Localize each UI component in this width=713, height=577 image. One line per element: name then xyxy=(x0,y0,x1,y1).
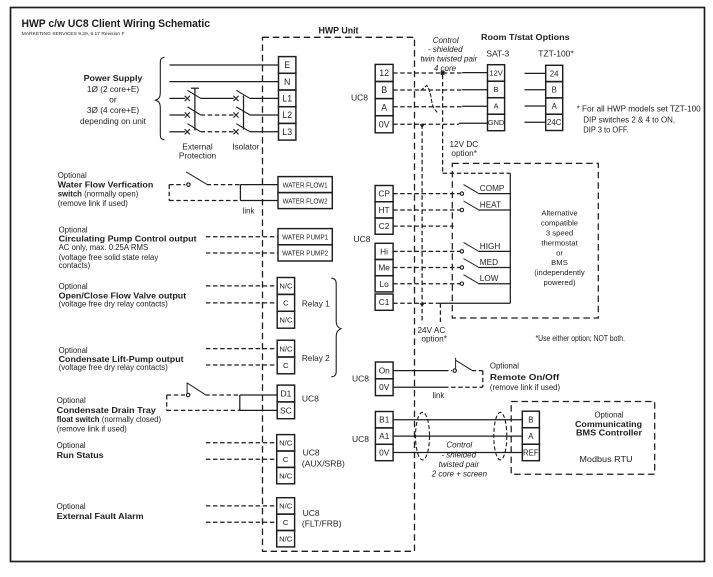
label UC8 FLT/FRB xyxy=(302,508,342,528)
HWP Unit dashed enclosure box xyxy=(263,37,415,551)
svg-text:Alternative: Alternative xyxy=(541,209,577,218)
svg-text:or: or xyxy=(556,248,563,257)
wire 0V remote xyxy=(393,386,483,388)
svg-text:N/C: N/C xyxy=(279,315,293,324)
wire water flow bottom xyxy=(169,200,240,202)
svg-text:(remove link if used): (remove link if used) xyxy=(57,425,128,434)
wire run status C xyxy=(206,458,277,460)
svg-text:Me: Me xyxy=(378,263,390,273)
wire drain tray top with float switch xyxy=(167,383,240,397)
label Power Supply block xyxy=(80,73,147,126)
wire 12 to SAT-3 12V xyxy=(393,72,487,74)
svg-text:float switch (normally closed): float switch (normally closed) xyxy=(57,415,162,424)
terminal block D1 SC xyxy=(277,385,294,419)
svg-text:C: C xyxy=(283,455,289,464)
svg-text:N: N xyxy=(284,77,290,87)
wire CP to COMP switch xyxy=(393,184,510,195)
svg-text:Protection: Protection xyxy=(179,151,217,161)
wire N xyxy=(170,81,279,83)
svg-text:4 core: 4 core xyxy=(434,64,457,73)
svg-text:CP: CP xyxy=(378,189,390,199)
isolator tie bar xyxy=(243,96,245,130)
svg-text:WATER FLOW2: WATER FLOW2 xyxy=(283,196,328,205)
svg-text:Optional: Optional xyxy=(594,410,623,419)
wire fault NC xyxy=(206,505,277,507)
svg-text:1Ø (2 core+E): 1Ø (2 core+E) xyxy=(87,84,140,94)
terminal block relay1 N/C C N/C xyxy=(277,278,294,329)
svg-text:*Use either option; NOT both.: *Use either option; NOT both. xyxy=(536,334,626,343)
svg-text:twin twisted pair: twin twisted pair xyxy=(420,54,477,63)
wire bus to C1 xyxy=(440,302,510,304)
svg-text:B: B xyxy=(381,85,387,95)
label Optional Communicating BMS Controller xyxy=(575,410,643,464)
svg-text:B: B xyxy=(494,85,499,94)
wire 12V DC option feed across xyxy=(443,172,511,174)
svg-text:0V: 0V xyxy=(379,119,390,129)
svg-text:N/C: N/C xyxy=(279,502,293,511)
svg-text:Optional: Optional xyxy=(59,225,88,234)
svg-text:24C: 24C xyxy=(547,118,562,127)
svg-text:link: link xyxy=(243,206,255,215)
wire A to SAT-3 A xyxy=(393,105,487,107)
wire Me to MED switch xyxy=(393,258,510,269)
terminal block SAT-3 12V B A GND xyxy=(488,65,505,131)
screen ellipse left xyxy=(416,412,430,460)
svg-text:DIP 3 to OFF.: DIP 3 to OFF. xyxy=(583,126,628,135)
svg-text:UC8: UC8 xyxy=(303,447,320,457)
svg-text:HWP Unit: HWP Unit xyxy=(319,26,359,36)
svg-text:SAT-3: SAT-3 xyxy=(486,48,509,58)
svg-text:On: On xyxy=(379,365,390,375)
wire 24V AC option drop short xyxy=(439,303,441,322)
svg-text:twisted pair: twisted pair xyxy=(439,460,480,469)
wire L2 with breaker and isolator xyxy=(170,107,279,118)
svg-text:0V: 0V xyxy=(379,447,390,457)
external protection tie bar xyxy=(191,88,199,130)
svg-text:Control: Control xyxy=(446,441,472,450)
wire run status NC xyxy=(206,442,277,444)
svg-text:Water Flow Verfication: Water Flow Verfication xyxy=(58,180,154,189)
svg-text:link: link xyxy=(433,391,445,400)
svg-text:WATER FLOW1: WATER FLOW1 xyxy=(283,180,328,189)
svg-text:LOW: LOW xyxy=(480,274,499,283)
terminal block B1 A1 0V xyxy=(375,412,393,461)
svg-text:or: or xyxy=(109,95,117,105)
label UC8 AUX/SRB xyxy=(302,447,345,468)
junction arrow at 0V wire xyxy=(420,124,425,128)
svg-text:UC8: UC8 xyxy=(351,92,368,102)
svg-text:contacts): contacts) xyxy=(59,261,91,270)
wire C1 dashed segment xyxy=(393,302,440,304)
wire water pump1 xyxy=(206,236,278,238)
wire remote right leg xyxy=(482,371,484,388)
svg-text:MED: MED xyxy=(480,258,498,267)
wire stub TZT 24C xyxy=(525,121,546,123)
svg-text:Modbus RTU: Modbus RTU xyxy=(579,454,632,464)
svg-text:AC only, max. 0.25A RMS: AC only, max. 0.25A RMS xyxy=(59,243,149,252)
svg-text:Optional: Optional xyxy=(59,346,88,355)
wire B to SAT-3 B xyxy=(393,89,487,91)
label 12V DC option xyxy=(450,140,479,158)
svg-text:N/C: N/C xyxy=(279,282,293,291)
thermostat common bus xyxy=(509,173,511,303)
wire E xyxy=(170,64,279,66)
svg-text:Remote On/Off: Remote On/Off xyxy=(490,373,560,382)
svg-text:N/C: N/C xyxy=(279,534,293,543)
svg-text:thermostat: thermostat xyxy=(541,238,578,247)
terminal block E N L1 L2 L3 xyxy=(279,57,296,141)
label Run Status xyxy=(57,441,105,460)
junction dot 12V DC feed xyxy=(441,71,445,75)
svg-text:UC8: UC8 xyxy=(303,508,320,518)
BMS controller dashed box xyxy=(511,402,655,475)
label Condensate Lift-Pump output xyxy=(59,346,184,372)
svg-text:3 speed: 3 speed xyxy=(546,229,573,238)
terminal block WATER FLOW1 FLOW2 xyxy=(278,177,332,209)
wire drain tray left leg xyxy=(166,395,168,410)
svg-text:A: A xyxy=(528,432,534,441)
link box drain tray xyxy=(240,395,277,410)
svg-text:Optional: Optional xyxy=(58,171,87,180)
label External Protection xyxy=(179,141,217,160)
svg-text:A: A xyxy=(494,102,499,111)
svg-text:Optional: Optional xyxy=(59,282,88,291)
wire water pump2 xyxy=(206,252,278,254)
svg-text:HWP c/w UC8 Client Wiring Sche: HWP c/w UC8 Client Wiring Schematic xyxy=(22,18,211,30)
wire Hi to HIGH switch xyxy=(393,242,510,253)
svg-text:D1: D1 xyxy=(280,389,291,399)
svg-text:HEAT: HEAT xyxy=(480,200,501,209)
wire A1 to A xyxy=(393,435,522,437)
label 24V AC option xyxy=(418,326,448,344)
svg-text:0V: 0V xyxy=(379,382,390,392)
svg-text:(FLT/FRB): (FLT/FRB) xyxy=(302,518,342,528)
svg-text:E: E xyxy=(284,60,290,70)
terminal block On 0V xyxy=(375,362,393,396)
svg-text:L3: L3 xyxy=(282,127,292,137)
label Control shielded twin twisted pair 4 core xyxy=(420,36,477,73)
svg-text:Relay 2: Relay 2 xyxy=(302,354,330,363)
wire 0V to SAT-3 GND xyxy=(393,123,487,124)
svg-text:Power Supply: Power Supply xyxy=(84,73,143,83)
thermostat option dashed box xyxy=(452,163,598,318)
wire Lo to LOW switch xyxy=(393,274,510,285)
svg-text:GND: GND xyxy=(488,118,504,127)
svg-text:A: A xyxy=(552,102,558,111)
svg-text:B1: B1 xyxy=(379,415,390,425)
svg-text:UC8: UC8 xyxy=(352,373,369,383)
svg-text:C: C xyxy=(283,518,289,527)
svg-text:Optional: Optional xyxy=(57,396,86,405)
label Control shielded twisted pair 2 core screen xyxy=(431,441,488,479)
label External Fault Alarm xyxy=(57,502,144,521)
svg-text:B: B xyxy=(528,415,533,424)
label Alternative compatible 3 speed thermostat or BMS xyxy=(534,209,585,287)
svg-text:Lo: Lo xyxy=(379,279,389,289)
wire B1 to B xyxy=(393,419,522,421)
svg-text:(AUX/SRB): (AUX/SRB) xyxy=(302,459,345,469)
svg-text:12V: 12V xyxy=(489,69,502,78)
svg-text:MARKETING SERVICES 9.29, 6.17: MARKETING SERVICES 9.29, 6.17 Revision F xyxy=(22,31,125,37)
terminal block CP HT C2 xyxy=(375,186,393,235)
svg-text:2 core + screen: 2 core + screen xyxy=(431,470,488,479)
terminal block TZT-100 24 B A 24C xyxy=(546,65,563,130)
svg-text:switch (normally open): switch (normally open) xyxy=(58,190,139,199)
wire relay2 NC xyxy=(206,348,277,350)
svg-text:* For all HWP models set TZT-1: * For all HWP models set TZT-100 xyxy=(577,104,702,113)
wire C2 stub xyxy=(393,225,453,227)
svg-text:HIGH: HIGH xyxy=(480,242,501,251)
svg-text:(voltage free dry relay contac: (voltage free dry relay contacts) xyxy=(59,300,169,309)
brace relay group xyxy=(331,278,341,377)
wire water flow left leg xyxy=(168,185,170,201)
label Circulating Pump Control output xyxy=(59,225,197,270)
label Water Flow Verification switch xyxy=(58,171,154,208)
svg-text:A: A xyxy=(381,102,387,112)
svg-text:COMP: COMP xyxy=(480,184,505,193)
label Optional Remote On/Off xyxy=(490,361,561,392)
label Condensate Drain Tray float switch xyxy=(57,396,162,434)
label Open/Close Flow Valve output xyxy=(59,282,187,308)
screen ellipse right xyxy=(494,412,507,460)
svg-text:HT: HT xyxy=(379,205,390,215)
wire 12V DC option feed down xyxy=(442,75,444,173)
svg-text:3Ø (4 core+E): 3Ø (4 core+E) xyxy=(87,105,140,115)
wire drain tray bottom xyxy=(167,409,240,411)
junction arrow at C1 wire xyxy=(420,303,425,307)
svg-text:12V DC: 12V DC xyxy=(450,140,479,149)
svg-text:(remove link if used): (remove link if used) xyxy=(490,383,561,392)
svg-text:Control: Control xyxy=(433,36,459,45)
wire 24V AC / 12V DC option link vertical xyxy=(421,124,423,323)
svg-text:UC8: UC8 xyxy=(352,434,369,444)
brace power supply group xyxy=(156,57,165,140)
terminal block Hi Me Lo xyxy=(375,243,393,292)
svg-text:Optional: Optional xyxy=(57,502,86,511)
svg-text:C1: C1 xyxy=(379,297,390,307)
svg-text:(voltage free dry relay contac: (voltage free dry relay contacts) xyxy=(59,363,169,372)
svg-text:- shielded: - shielded xyxy=(428,45,463,54)
svg-text:24: 24 xyxy=(550,69,559,78)
wire fault C xyxy=(206,521,277,523)
wire L3 with breaker and isolator xyxy=(170,124,279,135)
wire On with remote switch xyxy=(393,358,483,373)
svg-text:Condensate Drain Tray: Condensate Drain Tray xyxy=(57,406,157,415)
svg-text:Run Status: Run Status xyxy=(57,451,105,460)
wire stub TZT A xyxy=(525,105,546,107)
svg-text:N/C: N/C xyxy=(279,471,293,480)
wire water flow top with switch xyxy=(169,172,240,186)
svg-text:C2: C2 xyxy=(379,221,390,231)
svg-text:Optional: Optional xyxy=(490,361,519,370)
svg-text:12: 12 xyxy=(379,68,389,78)
svg-text:A1: A1 xyxy=(379,431,390,441)
svg-text:compatible: compatible xyxy=(541,219,578,228)
wire 0V to REF xyxy=(393,452,522,454)
note TZT-100 DIP switches xyxy=(577,104,702,134)
svg-text:REF: REF xyxy=(523,448,539,457)
terminal block C1 xyxy=(375,294,393,310)
svg-text:N/C: N/C xyxy=(279,439,293,448)
terminal block B A REF xyxy=(522,411,539,461)
svg-text:B: B xyxy=(552,86,557,95)
svg-text:Relay 1: Relay 1 xyxy=(302,299,330,308)
svg-text:DIP switches 2 & 4 to ON,: DIP switches 2 & 4 to ON, xyxy=(583,116,675,125)
svg-text:TZT-100*: TZT-100* xyxy=(538,48,574,58)
terminal block WATER PUMP1 PUMP2 xyxy=(278,229,332,261)
link box water flow xyxy=(240,185,278,201)
svg-text:Room T/stat Options: Room T/stat Options xyxy=(481,32,570,42)
svg-text:BMS Controller: BMS Controller xyxy=(576,429,643,438)
svg-text:UC8: UC8 xyxy=(302,393,319,403)
twisted pair squiggle xyxy=(421,85,438,112)
svg-text:L2: L2 xyxy=(282,110,292,120)
wire relay1 C xyxy=(206,302,277,304)
terminal block relay2 N/C C xyxy=(277,340,294,374)
svg-text:C: C xyxy=(283,299,289,308)
svg-text:Hi: Hi xyxy=(380,246,388,256)
svg-text:External Fault Alarm: External Fault Alarm xyxy=(57,512,144,521)
svg-text:option*: option* xyxy=(421,335,447,344)
svg-text:option*: option* xyxy=(451,149,477,158)
svg-text:BMS: BMS xyxy=(551,258,568,267)
svg-text:depending on unit: depending on unit xyxy=(80,116,147,126)
terminal block UC8 12 B A 0V xyxy=(375,64,393,132)
terminal block AUX N/C C N/C xyxy=(277,435,295,484)
svg-text:(remove link if used): (remove link if used) xyxy=(58,199,129,208)
svg-text:C: C xyxy=(283,361,289,370)
svg-text:L1: L1 xyxy=(282,94,292,104)
terminal block FLT N/C C N/C xyxy=(277,498,295,547)
svg-text:Optional: Optional xyxy=(57,441,86,450)
svg-text:UC8: UC8 xyxy=(353,234,370,244)
svg-text:SC: SC xyxy=(280,405,292,415)
svg-text:N/C: N/C xyxy=(279,344,293,353)
wire relay2 C xyxy=(206,364,277,366)
svg-text:WATER PUMP2: WATER PUMP2 xyxy=(282,249,328,258)
wire stub TZT 24 xyxy=(525,72,546,74)
svg-text:powered): powered) xyxy=(543,278,575,287)
wire L1 with breaker and isolator xyxy=(170,90,279,101)
svg-text:WATER PUMP1: WATER PUMP1 xyxy=(282,232,328,241)
wire HT to HEAT switch xyxy=(393,200,510,211)
wire relay1 NC xyxy=(206,285,277,287)
svg-text:- shielded: - shielded xyxy=(441,450,476,459)
svg-text:Isolator: Isolator xyxy=(232,141,259,151)
svg-text:(independently: (independently xyxy=(534,268,585,277)
wire stub TZT B xyxy=(525,89,546,91)
